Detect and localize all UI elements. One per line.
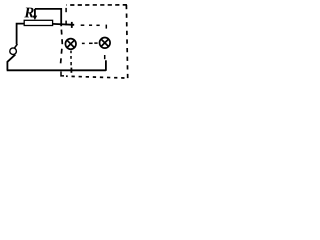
rheostat slider arrow	[33, 9, 38, 20]
node: junction tick where L1 lead meets bottom wire	[70, 68, 72, 73]
switch S pivot circle	[10, 48, 17, 55]
switch S lower lead (diagonal then down to bottom wire)	[7, 55, 15, 71]
dashed wire: lamp L2 bottom lead	[104, 55, 106, 59]
wire: resistor left lead and left vertical down to switch	[17, 24, 25, 45]
dashed box: right edge	[126, 5, 127, 78]
wire: right riser from bottom wire up toward lamp L2	[105, 60, 107, 71]
node: junction tick at top of lamp L1	[71, 22, 73, 28]
dashed box: top edge	[66, 4, 127, 6]
lamp L1 (circle with X)	[65, 39, 76, 50]
dashed wire: from junction right toward lamp L2 top	[81, 25, 107, 29]
dashed wire: between lamp L1 and lamp L2	[82, 42, 98, 44]
dashed wire: lamp L2 top lead	[105, 25, 107, 29]
wire: resistor right lead to junction	[53, 23, 75, 26]
dashed wire: lamp L1 bottom lead	[70, 51, 72, 66]
dashed box: left edge upper dashes	[65, 8, 67, 25]
resistor R body	[24, 20, 52, 25]
wire: bottom horizontal	[7, 69, 106, 71]
label R	[24, 8, 33, 18]
switch S blade upper segment	[15, 44, 18, 48]
dashed box: bottom edge	[66, 76, 128, 78]
dashed box: bottom-left corner	[61, 72, 64, 76]
dashed box: left edge lower part	[60, 30, 62, 67]
wire: slider top loop (up, right, down to main wire)	[35, 9, 61, 26]
lamp L2 (circle with X)	[100, 38, 111, 49]
